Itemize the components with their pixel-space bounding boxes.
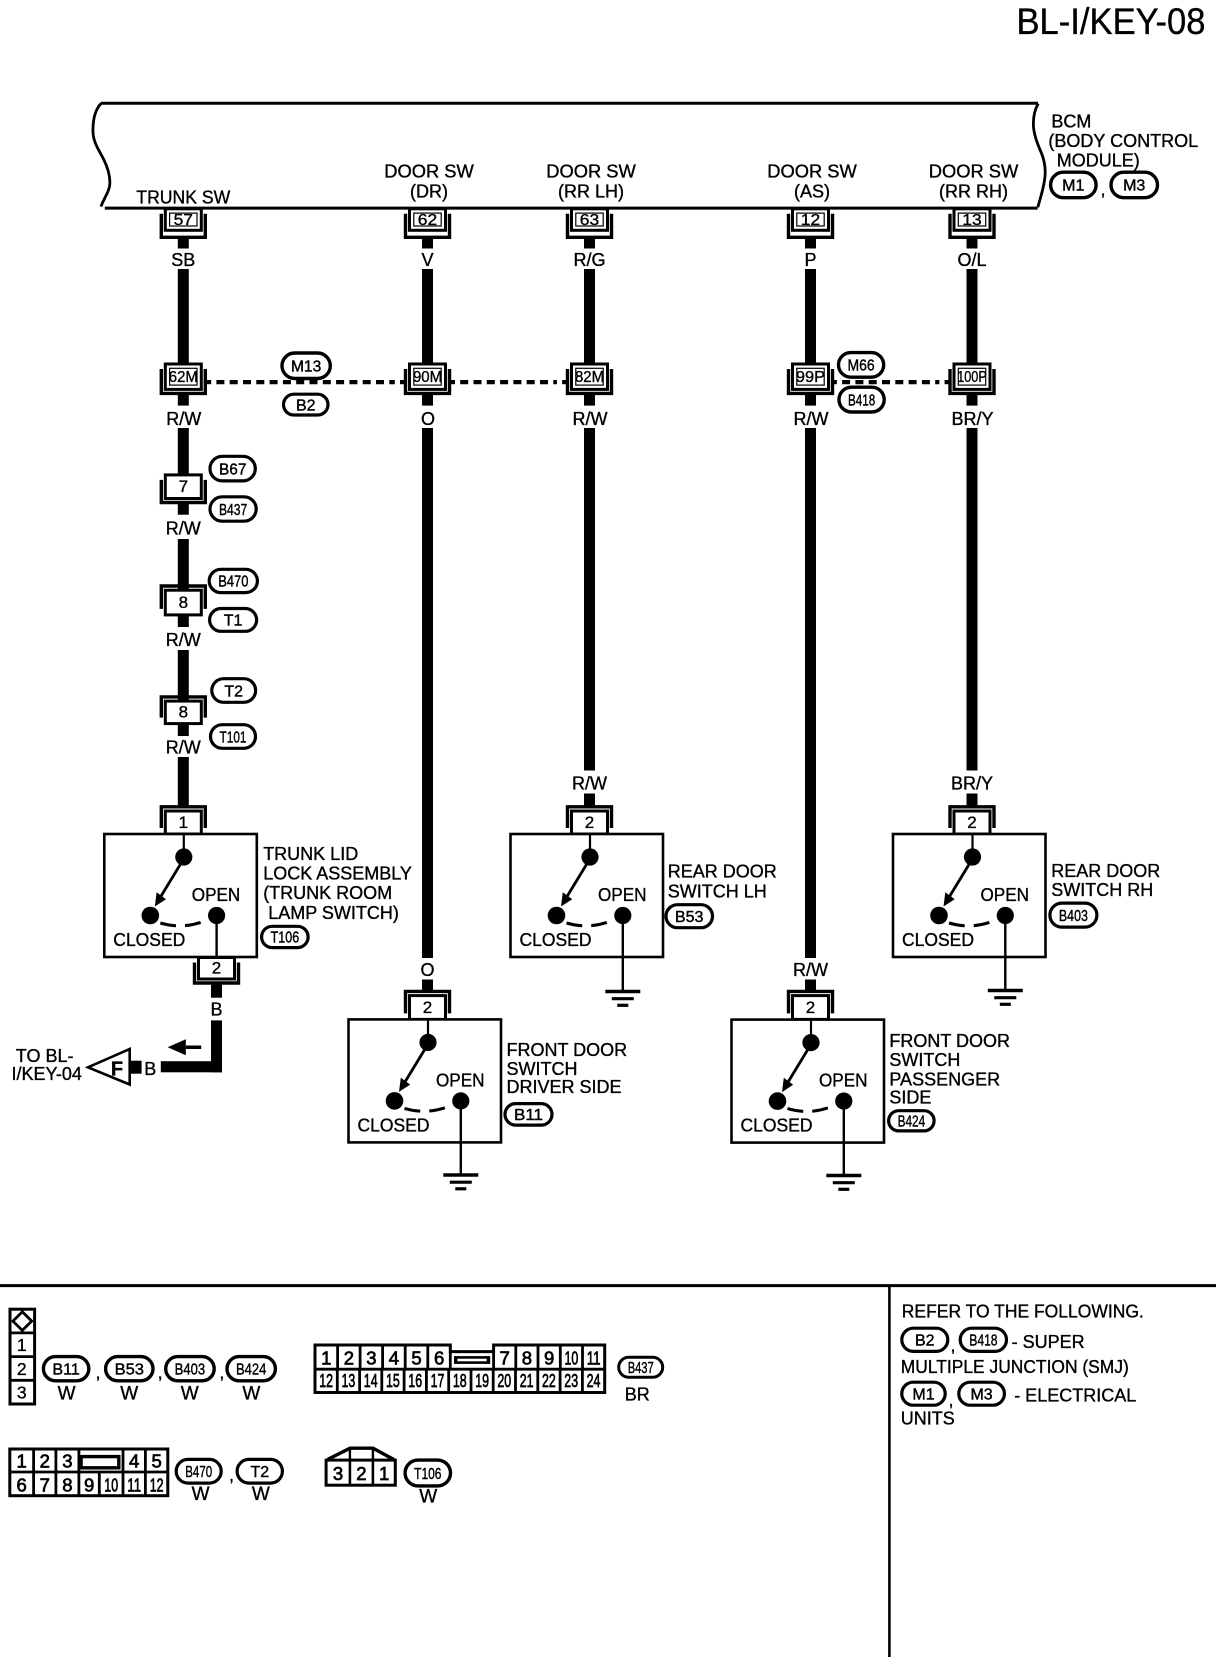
svg-text:SWITCH: SWITCH xyxy=(889,1050,960,1070)
svg-text:T1: T1 xyxy=(224,613,243,630)
svg-text:R/W: R/W xyxy=(794,409,829,429)
svg-text:(TRUNK ROOM: (TRUNK ROOM xyxy=(263,883,392,903)
svg-text:FRONT DOOR: FRONT DOOR xyxy=(507,1040,628,1060)
svg-text:2: 2 xyxy=(40,1451,50,1472)
svg-text:7: 7 xyxy=(179,477,188,496)
svg-text:5: 5 xyxy=(151,1451,161,1472)
svg-text:W: W xyxy=(120,1383,138,1404)
svg-text:2: 2 xyxy=(17,1359,27,1379)
svg-text:R/W: R/W xyxy=(572,774,607,794)
svg-text:CLOSED: CLOSED xyxy=(741,1116,813,1136)
svg-text:F: F xyxy=(111,1058,123,1080)
svg-text:82M: 82M xyxy=(575,369,604,386)
svg-text:17: 17 xyxy=(431,1370,445,1391)
svg-text:P: P xyxy=(804,250,816,270)
svg-text:3: 3 xyxy=(333,1463,343,1484)
svg-text:B437: B437 xyxy=(628,1360,654,1377)
svg-text:B418: B418 xyxy=(848,392,875,409)
svg-text:BR/Y: BR/Y xyxy=(951,409,993,429)
svg-text:1: 1 xyxy=(321,1348,331,1369)
svg-text:,: , xyxy=(951,1336,956,1356)
svg-text:12: 12 xyxy=(319,1370,333,1391)
svg-text:T106: T106 xyxy=(414,1466,441,1483)
svg-text:CLOSED: CLOSED xyxy=(902,930,974,950)
svg-text:2: 2 xyxy=(212,959,221,978)
svg-text:CLOSED: CLOSED xyxy=(520,930,592,950)
svg-text:B424: B424 xyxy=(898,1114,926,1131)
svg-text:8: 8 xyxy=(522,1348,532,1369)
svg-text:W: W xyxy=(192,1484,210,1505)
svg-text:R/W: R/W xyxy=(793,960,828,980)
svg-text:W: W xyxy=(419,1487,437,1508)
svg-text:B67: B67 xyxy=(219,461,246,478)
svg-text:O: O xyxy=(420,960,434,980)
svg-text:B11: B11 xyxy=(52,1362,80,1379)
svg-text:19: 19 xyxy=(475,1370,489,1391)
svg-text:3: 3 xyxy=(17,1383,27,1403)
svg-text:8: 8 xyxy=(62,1475,72,1496)
svg-text:15: 15 xyxy=(386,1370,400,1391)
svg-text:FRONT DOOR: FRONT DOOR xyxy=(889,1031,1010,1051)
svg-text:W: W xyxy=(58,1383,76,1404)
svg-text:REAR DOOR: REAR DOOR xyxy=(1051,861,1160,881)
svg-text:R/G: R/G xyxy=(573,250,605,270)
svg-text:2: 2 xyxy=(967,813,976,832)
svg-text:W: W xyxy=(242,1383,260,1404)
svg-text:B403: B403 xyxy=(1059,908,1088,925)
svg-text:90M: 90M xyxy=(413,369,442,386)
svg-text:M1: M1 xyxy=(1062,178,1084,195)
svg-text:M1: M1 xyxy=(912,1387,934,1404)
svg-text:16: 16 xyxy=(408,1370,422,1391)
svg-text:(DR): (DR) xyxy=(410,182,448,202)
svg-text:7: 7 xyxy=(500,1348,510,1369)
svg-text:21: 21 xyxy=(520,1370,534,1391)
svg-text:TO BL-: TO BL- xyxy=(16,1046,74,1066)
svg-text:4: 4 xyxy=(389,1348,399,1369)
svg-text:(AS): (AS) xyxy=(794,182,830,202)
svg-text:12: 12 xyxy=(801,212,821,229)
svg-text:3: 3 xyxy=(62,1451,72,1472)
svg-text:OPEN: OPEN xyxy=(598,885,647,905)
svg-text:BL-I/KEY-08: BL-I/KEY-08 xyxy=(1017,0,1206,42)
svg-text:R/W: R/W xyxy=(573,409,608,429)
svg-text:DRIVER SIDE: DRIVER SIDE xyxy=(507,1077,622,1097)
svg-text:,: , xyxy=(219,1363,224,1383)
svg-text:- ELECTRICAL: - ELECTRICAL xyxy=(1014,1386,1136,1406)
svg-text:10: 10 xyxy=(104,1475,118,1496)
svg-text:100P: 100P xyxy=(957,369,987,386)
svg-text:REAR DOOR: REAR DOOR xyxy=(668,862,777,882)
svg-text:B: B xyxy=(144,1059,156,1079)
svg-text:B53: B53 xyxy=(675,909,704,926)
svg-text:BR/Y: BR/Y xyxy=(951,774,993,794)
svg-text:18: 18 xyxy=(453,1370,467,1391)
svg-text:DOOR SW: DOOR SW xyxy=(767,162,857,182)
svg-text:63: 63 xyxy=(580,212,600,229)
svg-text:OPEN: OPEN xyxy=(981,885,1030,905)
svg-text:24: 24 xyxy=(587,1370,601,1391)
svg-text:12: 12 xyxy=(150,1475,164,1496)
svg-text:8: 8 xyxy=(179,593,188,612)
svg-text:20: 20 xyxy=(497,1370,511,1391)
svg-text:9: 9 xyxy=(544,1348,554,1369)
svg-text:BR: BR xyxy=(625,1384,650,1404)
svg-text:V: V xyxy=(421,250,433,270)
svg-text:99P: 99P xyxy=(796,369,825,386)
svg-text:B437: B437 xyxy=(219,502,247,519)
svg-text:57: 57 xyxy=(174,212,194,229)
svg-text:W: W xyxy=(252,1484,270,1505)
svg-text:B53: B53 xyxy=(115,1362,145,1379)
svg-text:R/W: R/W xyxy=(166,630,201,650)
svg-text:10: 10 xyxy=(565,1348,579,1369)
svg-text:UNITS: UNITS xyxy=(901,1408,955,1428)
svg-text:R/W: R/W xyxy=(166,738,201,758)
svg-text:OPEN: OPEN xyxy=(436,1070,485,1090)
svg-text:M66: M66 xyxy=(848,358,875,375)
svg-text:R/W: R/W xyxy=(166,409,201,429)
svg-text:1: 1 xyxy=(379,1463,389,1484)
svg-text:13: 13 xyxy=(962,212,982,229)
svg-text:8: 8 xyxy=(179,703,188,722)
svg-text:1: 1 xyxy=(17,1335,27,1355)
svg-text:B424: B424 xyxy=(236,1362,266,1379)
svg-text:3: 3 xyxy=(366,1348,376,1369)
svg-text:B470: B470 xyxy=(218,574,248,591)
svg-text:1: 1 xyxy=(179,813,188,832)
svg-text:2: 2 xyxy=(585,813,594,832)
svg-text:62M: 62M xyxy=(169,369,198,386)
svg-text:62: 62 xyxy=(418,212,438,229)
svg-text:23: 23 xyxy=(564,1370,578,1391)
svg-text:M13: M13 xyxy=(291,359,321,376)
svg-text:T101: T101 xyxy=(220,729,247,746)
svg-text:SWITCH RH: SWITCH RH xyxy=(1051,880,1153,900)
svg-text:SB: SB xyxy=(171,250,195,270)
svg-text:SWITCH LH: SWITCH LH xyxy=(668,881,767,901)
svg-text:2: 2 xyxy=(356,1463,366,1484)
svg-text:11: 11 xyxy=(587,1348,601,1369)
svg-text:(BODY CONTROL: (BODY CONTROL xyxy=(1048,131,1198,151)
svg-text:13: 13 xyxy=(342,1370,356,1391)
svg-text:PASSENGER: PASSENGER xyxy=(889,1069,1000,1089)
svg-text:BCM: BCM xyxy=(1051,111,1091,131)
svg-text:T106: T106 xyxy=(271,930,300,947)
svg-text:6: 6 xyxy=(17,1475,27,1496)
svg-text:T2: T2 xyxy=(224,683,243,700)
svg-text:B2: B2 xyxy=(915,1333,935,1350)
svg-text:OPEN: OPEN xyxy=(192,885,241,905)
svg-text:(RR RH): (RR RH) xyxy=(939,182,1008,202)
svg-text:22: 22 xyxy=(542,1370,556,1391)
svg-text:TRUNK SW: TRUNK SW xyxy=(136,188,230,208)
svg-text:LAMP SWITCH): LAMP SWITCH) xyxy=(268,903,399,923)
svg-text:6: 6 xyxy=(434,1348,444,1369)
svg-text:B418: B418 xyxy=(969,1333,997,1350)
svg-text:- SUPER: - SUPER xyxy=(1012,1332,1085,1352)
svg-text:DOOR SW: DOOR SW xyxy=(384,162,474,182)
svg-text:SWITCH: SWITCH xyxy=(507,1059,578,1079)
svg-text:1: 1 xyxy=(17,1451,27,1472)
svg-text:SIDE: SIDE xyxy=(889,1088,931,1108)
svg-text:B11: B11 xyxy=(514,1107,543,1124)
svg-text:(RR LH): (RR LH) xyxy=(558,182,624,202)
svg-text:O/L: O/L xyxy=(957,250,986,270)
svg-text:,: , xyxy=(1101,180,1106,200)
svg-text:B470: B470 xyxy=(185,1464,212,1481)
svg-text:LOCK ASSEMBLY: LOCK ASSEMBLY xyxy=(263,864,412,884)
svg-text:MULTIPLE JUNCTION (SMJ): MULTIPLE JUNCTION (SMJ) xyxy=(901,1357,1129,1377)
svg-text:,: , xyxy=(158,1363,163,1383)
svg-text:B403: B403 xyxy=(175,1362,206,1379)
svg-text:R/W: R/W xyxy=(166,519,201,539)
svg-text:M3: M3 xyxy=(1123,178,1145,195)
svg-text:B2: B2 xyxy=(296,397,316,414)
svg-text:T2: T2 xyxy=(250,1464,269,1481)
svg-text:,: , xyxy=(96,1363,101,1383)
svg-text:W: W xyxy=(181,1383,199,1404)
svg-text:7: 7 xyxy=(40,1475,50,1496)
svg-text:2: 2 xyxy=(423,998,432,1017)
svg-text:9: 9 xyxy=(84,1475,94,1496)
svg-text:OPEN: OPEN xyxy=(819,1071,868,1091)
svg-text:4: 4 xyxy=(129,1451,139,1472)
svg-text:,: , xyxy=(229,1465,234,1485)
svg-text:2: 2 xyxy=(344,1348,354,1369)
svg-text:2: 2 xyxy=(806,998,815,1017)
svg-text:O: O xyxy=(421,409,435,429)
svg-text:,: , xyxy=(949,1390,954,1410)
svg-text:DOOR SW: DOOR SW xyxy=(929,162,1019,182)
svg-text:5: 5 xyxy=(411,1348,421,1369)
svg-text:I/KEY-04: I/KEY-04 xyxy=(12,1064,82,1084)
svg-text:14: 14 xyxy=(364,1370,378,1391)
svg-text:CLOSED: CLOSED xyxy=(113,930,185,950)
svg-text:DOOR SW: DOOR SW xyxy=(546,162,636,182)
svg-text:REFER TO THE FOLLOWING.: REFER TO THE FOLLOWING. xyxy=(902,1302,1144,1322)
svg-text:M3: M3 xyxy=(970,1387,992,1404)
svg-text:11: 11 xyxy=(127,1475,141,1496)
svg-text:TRUNK LID: TRUNK LID xyxy=(263,844,358,864)
svg-text:MODULE): MODULE) xyxy=(1057,150,1140,170)
svg-text:B: B xyxy=(210,999,222,1019)
svg-text:CLOSED: CLOSED xyxy=(358,1115,430,1135)
